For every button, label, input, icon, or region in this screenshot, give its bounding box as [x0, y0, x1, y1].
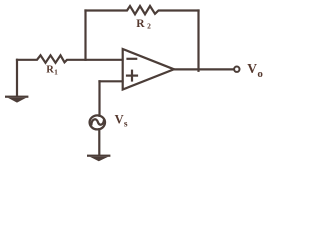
- label R2: [136, 18, 151, 31]
- wire feedback right vertical: [197, 11, 199, 71]
- wire + input horizontal: [100, 80, 123, 82]
- wire input with resistor R1 zigzag: [17, 55, 123, 63]
- ground (source): [87, 155, 110, 162]
- label Vo: [247, 61, 263, 80]
- svg-text:R: R: [136, 18, 145, 30]
- label Vs: [115, 113, 128, 130]
- wire source to ground: [98, 129, 100, 154]
- svg-text:o: o: [257, 68, 263, 80]
- wire + input vertical down to source: [98, 81, 100, 116]
- svg-text:s: s: [124, 119, 128, 129]
- node Vo terminal: [234, 67, 239, 72]
- svg-text:R: R: [46, 64, 54, 75]
- wire feedback top with resistor R2 zigzag: [86, 6, 199, 14]
- svg-text:2: 2: [147, 21, 151, 30]
- wire left ground drop: [16, 60, 18, 96]
- ground (left): [5, 96, 28, 103]
- label R1: [46, 64, 58, 76]
- wire op-amp output: [174, 68, 233, 70]
- wire feedback left vertical: [84, 11, 86, 60]
- svg-text:1: 1: [54, 68, 58, 77]
- svg-text:V: V: [247, 61, 257, 76]
- source Vs: [90, 115, 105, 129]
- svg-text:V: V: [115, 113, 124, 127]
- op-amp U1: [123, 49, 174, 90]
